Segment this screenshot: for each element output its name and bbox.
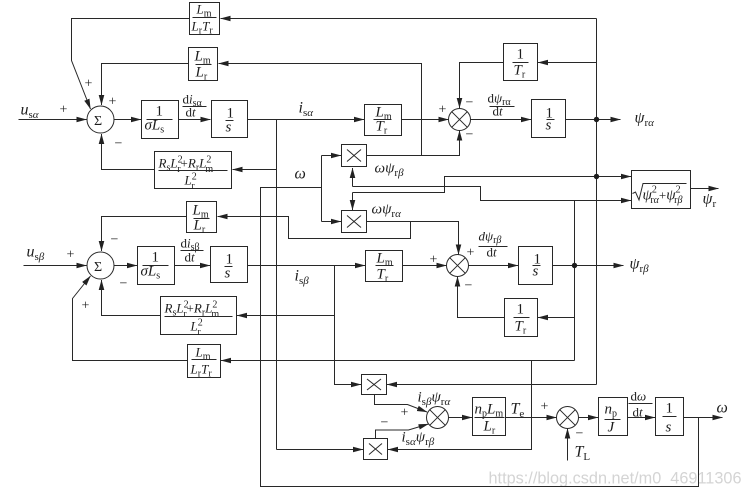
svg-text:dt: dt xyxy=(186,105,197,120)
node psi-r-alpha sqrt tap xyxy=(594,174,599,179)
svg-text:LrTr: LrTr xyxy=(191,19,214,37)
svg-text:−: − xyxy=(115,137,123,152)
wire Lm/Lr row1 output to sum1 top xyxy=(102,64,189,106)
wire Rs box row2 output to sum2 bottom xyxy=(102,280,161,316)
svg-text:+: + xyxy=(85,77,93,92)
wire psi-r-beta to Lm/LrTr row2 xyxy=(221,360,575,362)
wire i_s-alpha to Rs box row1 xyxy=(233,169,277,171)
block Lm/LrTr row1 xyxy=(190,3,220,35)
svg-text:+: + xyxy=(467,246,475,261)
wire omega into xmult2 xyxy=(322,221,342,223)
wire psi-r-alpha to 1/Tr row1 xyxy=(538,62,597,64)
svg-text:+: + xyxy=(439,103,447,118)
multiplier mult1 xyxy=(449,109,471,131)
mult3 cross xyxy=(430,410,446,426)
svg-text:Σ: Σ xyxy=(94,114,102,129)
multiplier mult3 xyxy=(427,407,449,429)
wire psi-r-beta into xmult1 bottom xyxy=(352,168,354,187)
svg-text:dt: dt xyxy=(185,250,196,265)
wire Lm/Lr row2 output to sum2 top xyxy=(102,217,187,252)
wire psi-r-alpha output xyxy=(566,119,621,121)
svg-text:s: s xyxy=(225,266,231,282)
wire TL input xyxy=(567,429,569,461)
svg-text:ω: ω xyxy=(717,400,728,417)
svg-text:+: + xyxy=(60,103,68,118)
svg-text:1: 1 xyxy=(517,47,525,63)
wire 1/sigmaLs to 1/s row2 xyxy=(175,265,211,267)
block 1/s row1b xyxy=(532,100,566,138)
wire Lm/LrTr row2 output to sum2 xyxy=(73,276,188,361)
svg-text:σLs: σLs xyxy=(141,264,161,282)
xmult box xmult4 xyxy=(364,439,388,460)
svg-text:isα: isα xyxy=(299,100,314,120)
wire 1/sigmaLs to 1/s xyxy=(179,119,211,121)
wire 1/Tr row2 output to mult2 bottom xyxy=(458,277,505,318)
summing junction sum1 xyxy=(87,106,114,133)
svg-text:+: + xyxy=(541,400,549,415)
svg-text:isβ: isβ xyxy=(295,268,310,288)
svg-text:−: − xyxy=(466,96,474,111)
wire omega-psi-r-alpha to mult2 top xyxy=(367,222,459,255)
wire Lm/LrTr row1 output to sum1 xyxy=(72,19,190,110)
wire Lm/Tr to mult1 xyxy=(402,119,449,121)
svg-text:s: s xyxy=(226,120,232,136)
wire omega branch vertical xyxy=(321,156,323,222)
wire omega-psi-r-beta to mult1 bottom xyxy=(367,131,460,156)
mult2 cross xyxy=(450,258,466,274)
wire i_s-beta vertical to xmult3 xyxy=(335,266,362,385)
svg-text:ψ2rα+ψ2rβ: ψ2rα+ψ2rβ xyxy=(643,185,683,207)
wire psi-r-beta output xyxy=(553,265,624,267)
wire psi-r-beta drop to xmult4 xyxy=(388,361,532,450)
svg-text:s: s xyxy=(666,420,672,436)
block 1/sigmaLs row2 xyxy=(138,247,175,285)
svg-text:Σ: Σ xyxy=(94,260,102,275)
svg-text:Lm: Lm xyxy=(196,2,212,20)
svg-text:dt: dt xyxy=(493,104,504,119)
block np/J xyxy=(599,398,628,436)
svg-text:+: + xyxy=(401,406,409,421)
svg-text:−: − xyxy=(381,416,389,431)
svg-text:−: − xyxy=(466,128,474,143)
node psi-r-beta junction xyxy=(572,263,577,268)
block Lm/LrTr row2 xyxy=(188,345,221,378)
block 1/Tr row1 xyxy=(504,44,538,81)
block Lm/Lr row1 xyxy=(189,48,218,81)
svg-text:+: + xyxy=(82,299,90,314)
svg-text:ψr: ψr xyxy=(703,191,717,211)
svg-text:Lr: Lr xyxy=(483,419,496,437)
wire mult2 to 1/s row2b xyxy=(468,265,518,267)
wire omega-psi-r-alpha branch to Lm/Lr row2 xyxy=(218,217,411,239)
wire psi-r-alpha to xmult3 xyxy=(387,384,597,386)
wire i_s-alpha line to Lm/Tr xyxy=(248,119,365,121)
summing junction sum4 xyxy=(557,407,579,429)
svg-text:s: s xyxy=(546,118,552,134)
xmult box xmult1 xyxy=(342,145,367,167)
wire psi-r-beta route to sqrt box xyxy=(353,187,632,201)
block 1/s row3 xyxy=(656,398,684,436)
wire mult3 to npLm/Lr xyxy=(448,417,472,419)
block Lm/Tr row1 xyxy=(365,105,402,136)
block Lm/Tr row2 xyxy=(366,251,403,282)
svg-text:npLm: npLm xyxy=(475,402,504,420)
wire i_s-alpha vertical trunk xyxy=(276,120,278,450)
svg-text:σLs: σLs xyxy=(145,118,165,136)
wire mult1 to 1/s row1 xyxy=(470,119,531,121)
wire psi-r-alpha vertical trunk xyxy=(596,19,598,385)
block 1/s row1a xyxy=(212,101,248,138)
svg-text:−: − xyxy=(111,233,119,248)
wire psi-r-alpha route to sqrt box xyxy=(353,177,632,193)
wire sum1 to 1/sigmaLs xyxy=(114,119,141,121)
svg-text:isβψrα: isβψrα xyxy=(418,390,451,409)
svg-text:usβ: usβ xyxy=(27,244,45,264)
wire u_s-beta input xyxy=(24,265,87,267)
block sqrt psi-r xyxy=(632,171,691,209)
svg-text:+: + xyxy=(430,253,438,268)
wire psi-r-beta vertical trunk xyxy=(574,201,576,361)
block Lm/Lr row2 xyxy=(187,202,217,233)
svg-text:LrTr: LrTr xyxy=(190,362,213,380)
svg-text:ωψrα: ωψrα xyxy=(372,202,402,221)
svg-text:isαψrβ: isαψrβ xyxy=(402,430,435,449)
svg-text:+: + xyxy=(67,248,75,263)
wire i_s-alpha to xmult4 xyxy=(277,449,364,451)
svg-text:Te: Te xyxy=(511,401,525,421)
wire psi-r-beta to 1/Tr row2 xyxy=(538,317,575,319)
svg-text:ψrα: ψrα xyxy=(635,110,655,130)
svg-text:TL: TL xyxy=(575,444,591,464)
wire Lm/Tr row2 to mult2 xyxy=(403,265,447,267)
summing junction sum2 xyxy=(87,252,114,279)
wire omega into xmult1 xyxy=(322,155,342,157)
mult1 cross xyxy=(452,112,468,128)
block 1/sigmaLs row1 xyxy=(142,101,179,139)
svg-text:Tr: Tr xyxy=(515,319,527,337)
wire omega output xyxy=(684,417,723,419)
svg-text:−: − xyxy=(465,279,473,294)
node psi-r-alpha junction xyxy=(594,117,599,122)
xmult box xmult3 xyxy=(362,375,387,395)
svg-text:ψrβ: ψrβ xyxy=(630,256,650,276)
svg-text:dt: dt xyxy=(633,405,644,420)
wire 1/Tr row1 output to mult1 xyxy=(460,63,504,109)
wire omega feedback loop xyxy=(261,188,699,487)
svg-text:−: − xyxy=(576,427,584,442)
wire psi-r-alpha into xmult2 top xyxy=(352,193,354,211)
sqrt box radical xyxy=(633,184,687,201)
svg-text:s: s xyxy=(533,264,539,280)
svg-text:usα: usα xyxy=(21,102,39,122)
block 1/s row2b xyxy=(519,247,553,285)
svg-text:dω: dω xyxy=(631,389,647,404)
multiplier mult2 xyxy=(447,255,469,277)
block 1/Tr row2 xyxy=(505,299,538,337)
wire feedback to Lm/LrTr row1 xyxy=(221,18,597,20)
svg-text:ω: ω xyxy=(295,166,306,183)
wire i_s-beta line to Lm/Tr row2 xyxy=(248,265,366,267)
svg-text:+: + xyxy=(109,95,117,110)
sum4 cross xyxy=(560,410,576,426)
wire i_s-beta to Rs box row2 xyxy=(237,315,335,317)
wire u_s-alpha input xyxy=(19,119,87,121)
svg-text:dt: dt xyxy=(487,245,498,260)
svg-text:https://blog.csdn.net/m0_46911: https://blog.csdn.net/m0_46911306 xyxy=(489,469,742,488)
svg-text:−: − xyxy=(120,277,128,292)
wire xmult3 output to mult3 xyxy=(375,395,428,413)
svg-text:np: np xyxy=(605,402,618,420)
wire sum4 to np/J xyxy=(578,417,598,419)
block Rs row2 xyxy=(161,297,237,335)
wire Te to sum4 xyxy=(506,417,557,419)
svg-text:1: 1 xyxy=(517,302,525,318)
svg-text:dψrβ: dψrβ xyxy=(479,229,502,247)
wire sqrt box to psi-r output xyxy=(691,188,719,190)
wire Rs box row1 output to sum1 bottom xyxy=(102,134,155,170)
svg-text:ωψrβ: ωψrβ xyxy=(375,161,405,180)
wire np/J to 1/s row3 xyxy=(628,417,656,419)
block npLm/Lr xyxy=(473,398,506,436)
xmult box xmult2 xyxy=(342,211,367,233)
wire sum2 to 1/sigmaLs row2 xyxy=(114,265,137,267)
svg-text:Lr: Lr xyxy=(195,65,208,83)
svg-text:J: J xyxy=(608,420,616,436)
svg-text:1: 1 xyxy=(666,401,674,417)
svg-text:Tr: Tr xyxy=(514,63,526,81)
block Rs row1 xyxy=(155,152,232,189)
block 1/s row2a xyxy=(211,247,248,283)
wire xmult4 output to mult3 xyxy=(376,424,429,439)
svg-text:Tr: Tr xyxy=(377,267,389,285)
wire omega-psi-r-beta vertical to Lm/Lr row1 xyxy=(219,64,422,156)
